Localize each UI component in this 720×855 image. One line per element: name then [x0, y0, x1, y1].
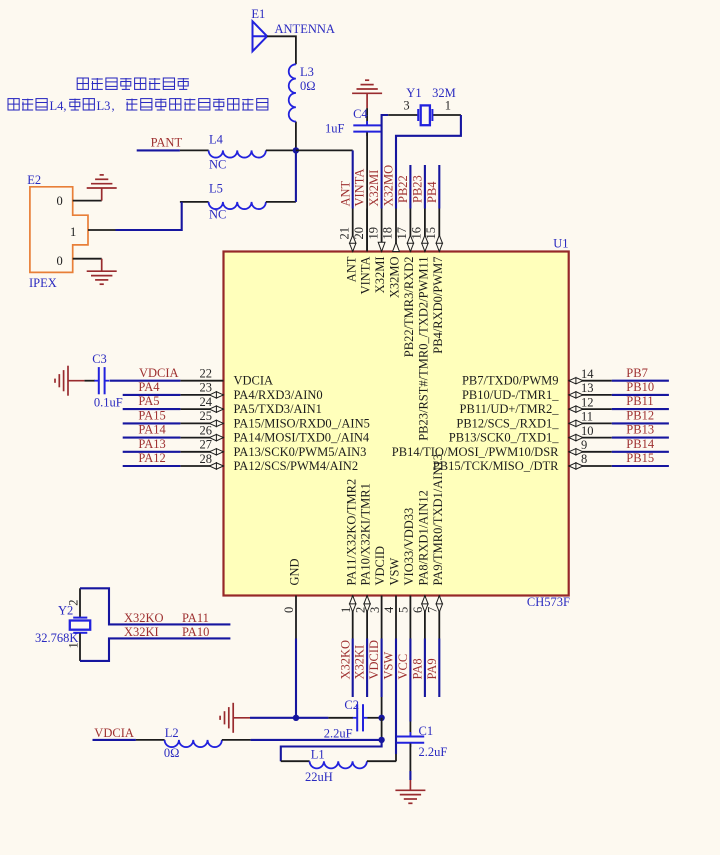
svg-text:PB12/SCS_/RXD1_: PB12/SCS_/RXD1_: [456, 416, 559, 430]
pin 22 (VDCIA) left: [180, 367, 273, 388]
pin 25 (PA15) left: [180, 409, 369, 430]
svg-text:VIO33/VDD33: VIO33/VDD33: [402, 508, 416, 586]
svg-text:PA12/SCS/PWM4/AIN2: PA12/SCS/PWM4/AIN2: [234, 459, 359, 473]
IC U1 CH573F body: [224, 237, 571, 609]
svg-text:PB22/TMR3/RXD2: PB22/TMR3/RXD2: [402, 257, 416, 358]
svg-text:E2: E2: [27, 173, 41, 187]
svg-text:L5: L5: [209, 182, 223, 196]
svg-text:PA9: PA9: [425, 658, 439, 679]
svg-text:24: 24: [200, 395, 213, 409]
wire ground to C2: [250, 717, 328, 719]
svg-text:L3: L3: [300, 65, 314, 79]
svg-text:C3: C3: [92, 352, 107, 366]
svg-text:5: 5: [397, 607, 411, 613]
wire C2 to VDCIA node: [381, 718, 383, 740]
inductor L1: [281, 747, 396, 784]
svg-text:NC: NC: [209, 208, 226, 222]
svg-text:PB4: PB4: [425, 181, 439, 203]
svg-text:21: 21: [337, 227, 351, 240]
svg-text:PB15: PB15: [626, 451, 654, 465]
svg-text:PB13: PB13: [626, 423, 654, 437]
svg-text:L4,: L4,: [50, 99, 67, 113]
wire E2 pin1 to L5: [116, 202, 182, 230]
capacitor C4: [325, 107, 381, 251]
pin 3 (VDCID) bottom: [368, 546, 387, 639]
capacitor C1: [397, 722, 448, 772]
pin 13 (PB10) right: [462, 381, 612, 402]
wire Y2 pin2 to X32KO: [80, 588, 230, 624]
svg-text:C2: C2: [344, 698, 359, 712]
svg-text:18: 18: [381, 227, 395, 240]
svg-text:6: 6: [411, 607, 425, 613]
svg-text:X32KI: X32KI: [124, 625, 159, 639]
svg-text:IPEX: IPEX: [29, 276, 57, 290]
svg-text:16: 16: [410, 227, 424, 240]
inductor L3: [289, 64, 316, 150]
svg-text:PB4/RXD0/PWM7: PB4/RXD0/PWM7: [431, 257, 445, 354]
node C2 junction: [378, 715, 384, 721]
svg-text:PA4/RXD3/AIN0: PA4/RXD3/AIN0: [234, 388, 323, 402]
svg-text:11: 11: [581, 410, 593, 424]
svg-text:PB14: PB14: [626, 437, 655, 451]
svg-text:9: 9: [581, 438, 587, 452]
svg-text:13: 13: [581, 381, 594, 395]
svg-text:PA11/X32KO/TMR2: PA11/X32KO/TMR2: [344, 479, 358, 586]
wire VDCID to C2: [381, 697, 383, 718]
capacitor C2: [324, 698, 382, 741]
svg-text:27: 27: [200, 438, 213, 452]
svg-text:PB10: PB10: [626, 380, 654, 394]
svg-text:X32KO: X32KO: [124, 611, 164, 625]
svg-text:12: 12: [581, 395, 594, 409]
pin 16 (PB23) top: [410, 209, 431, 441]
wire stub X32KO: [352, 639, 354, 698]
wire C1 to ground: [409, 771, 411, 780]
svg-text:PB15/TCK/MISO_/DTR: PB15/TCK/MISO_/DTR: [433, 459, 559, 473]
pin 14 (PB7) right: [462, 367, 612, 388]
annotation text line2 (可短接L4,断开L3，通过底板使用外接天线): [8, 99, 268, 113]
svg-text:10: 10: [581, 424, 594, 438]
svg-text:PB7/TXD0/PWM9: PB7/TXD0/PWM9: [462, 374, 559, 388]
pin 5 (VCC) bottom: [397, 508, 416, 639]
svg-text:PA9/TMR0/TXD1/AIN13: PA9/TMR0/TXD1/AIN13: [431, 454, 445, 586]
svg-text:L2: L2: [165, 726, 179, 740]
annotation text line1 (默认使用板载天线): [77, 78, 189, 89]
svg-text:PB11/UD+/TMR2_: PB11/UD+/TMR2_: [460, 402, 560, 416]
svg-text:PA4: PA4: [138, 380, 160, 394]
pin 10 (PB13) right: [449, 424, 612, 445]
wire PB7: [612, 380, 669, 382]
svg-text:22uH: 22uH: [305, 770, 333, 784]
svg-text:ANT: ANT: [338, 180, 352, 206]
ground at GND net: [220, 703, 250, 733]
svg-text:14: 14: [581, 367, 594, 381]
svg-text:PA15/MISO/RXD0_/AIN5: PA15/MISO/RXD0_/AIN5: [234, 416, 370, 430]
svg-text:0.1uF: 0.1uF: [94, 395, 123, 409]
wire VSW: [395, 639, 397, 755]
node antenna junction: [293, 147, 299, 153]
ground above C4: [352, 80, 382, 108]
node GND junction: [293, 715, 299, 721]
svg-text:X32MI: X32MI: [373, 257, 387, 294]
svg-text:PA8: PA8: [411, 658, 425, 679]
svg-text:1: 1: [339, 607, 353, 613]
svg-text:PB22: PB22: [396, 175, 410, 203]
svg-text:7: 7: [426, 607, 440, 613]
svg-text:PA8/RXD1/AIN12: PA8/RXD1/AIN12: [417, 490, 431, 585]
capacitor C3: [84, 352, 122, 410]
wire PA14: [123, 437, 181, 439]
svg-text:1uF: 1uF: [325, 122, 345, 136]
svg-text:VDCIA: VDCIA: [234, 374, 274, 388]
svg-text:PA5/TXD3/AIN1: PA5/TXD3/AIN1: [234, 402, 322, 416]
svg-text:1: 1: [70, 225, 76, 239]
pin 9 (PB14) right: [392, 438, 612, 459]
wire stub PB22: [409, 165, 411, 209]
pin 24 (PA5) left: [180, 395, 322, 416]
wire L2 to node: [251, 739, 382, 741]
svg-text:PA5: PA5: [138, 394, 159, 408]
svg-text:26: 26: [200, 423, 213, 437]
svg-text:X32MI: X32MI: [367, 170, 381, 207]
svg-text:PA14: PA14: [138, 423, 166, 437]
wire PB13: [612, 437, 669, 439]
wire VCC: [409, 639, 411, 722]
svg-text:L4: L4: [209, 132, 224, 146]
svg-text:PB23: PB23: [411, 175, 425, 203]
wire PA13: [123, 451, 181, 453]
wire stub PB23: [424, 165, 426, 209]
wire antenna node to ANT pin: [296, 149, 353, 151]
wire L5 to antenna node: [295, 150, 297, 202]
connector E2 (IPEX): [27, 173, 88, 290]
wire node to L1: [281, 740, 382, 761]
svg-text:VSW: VSW: [382, 652, 396, 680]
svg-text:PB11: PB11: [626, 394, 653, 408]
wire VDCIA L2: [93, 739, 136, 741]
svg-text:L1: L1: [311, 747, 325, 761]
pin 18 (X32MO) top: [381, 209, 402, 299]
wire E1 to L3: [267, 36, 296, 64]
svg-text:0: 0: [57, 254, 63, 268]
svg-text:25: 25: [200, 409, 213, 423]
pin E2.0 top: [73, 200, 102, 202]
svg-text:20: 20: [352, 227, 366, 240]
svg-text:VSW: VSW: [388, 558, 402, 586]
svg-text:0Ω: 0Ω: [164, 746, 180, 760]
svg-text:2.2uF: 2.2uF: [324, 726, 353, 740]
wire stub PB4: [438, 165, 440, 209]
inductor L4: [180, 132, 296, 171]
wire PB11: [612, 408, 669, 410]
wire VDCIA: [110, 380, 181, 382]
pin 7 (PA9) bottom: [426, 454, 445, 639]
svg-text:17: 17: [395, 227, 409, 240]
pin 2 (X32KI) bottom: [353, 483, 372, 638]
svg-text:NC: NC: [209, 158, 226, 172]
svg-text:3: 3: [403, 99, 409, 113]
crystal Y1 32M: [388, 86, 461, 125]
svg-text:PB10/UD-/TMR1_: PB10/UD-/TMR1_: [462, 388, 559, 402]
svg-text:15: 15: [424, 227, 438, 240]
svg-text:GND: GND: [288, 558, 302, 585]
pin 1 (X32KO) bottom: [339, 479, 358, 639]
wire VDCID: [381, 639, 383, 698]
svg-text:X32KI: X32KI: [353, 645, 367, 680]
svg-text:4: 4: [382, 606, 396, 613]
svg-text:PB12: PB12: [626, 409, 654, 423]
wire Y2 pin1 to X32KI: [80, 638, 230, 661]
node VDCIA junction: [378, 737, 384, 743]
svg-text:VDCID: VDCID: [373, 546, 387, 586]
svg-text:0: 0: [57, 194, 63, 208]
wire PB10: [612, 394, 669, 396]
inductor L5: [180, 182, 296, 222]
pin 20 (VINTA) top: [352, 209, 373, 295]
wire stub PA9: [438, 639, 440, 698]
svg-text:19: 19: [366, 227, 380, 240]
ground at E2 bottom: [87, 259, 117, 285]
ground at C1: [395, 780, 425, 803]
svg-text:PA14/MOSI/TXD0_/AIN4: PA14/MOSI/TXD0_/AIN4: [234, 431, 370, 445]
svg-text:C1: C1: [419, 724, 434, 738]
wire PA5: [123, 408, 181, 410]
svg-text:PA11: PA11: [182, 611, 209, 625]
pin 4 (VSW) bottom: [382, 558, 401, 639]
svg-text:VDCIA: VDCIA: [139, 366, 179, 380]
svg-text:L3: L3: [97, 99, 111, 113]
wire Y1 pin1 to X32MO: [396, 115, 461, 209]
antenna E1: [251, 7, 335, 51]
svg-text:PA10/X32KI/TMR1: PA10/X32KI/TMR1: [359, 483, 373, 585]
pin 21 (ANT) top: [337, 209, 358, 283]
wire PANT: [137, 149, 180, 151]
svg-text:U1: U1: [553, 237, 568, 251]
svg-text:X32MO: X32MO: [382, 165, 396, 207]
svg-text:VINTA: VINTA: [359, 257, 373, 295]
svg-text:ANTENNA: ANTENNA: [275, 22, 335, 36]
svg-text:PB23/RST#/TMR0_/TXD2/PWM11: PB23/RST#/TMR0_/TXD2/PWM11: [417, 257, 431, 441]
wire PB12: [612, 422, 669, 424]
svg-text:PB7: PB7: [626, 366, 648, 380]
wire GND net: [295, 639, 297, 718]
svg-text:PB14/TIO/MOSI_/PWM10/DSR: PB14/TIO/MOSI_/PWM10/DSR: [392, 445, 559, 459]
svg-text:PA13/SCK0/PWM5/AIN3: PA13/SCK0/PWM5/AIN3: [234, 445, 367, 459]
svg-text:,: ,: [112, 99, 115, 113]
wire Y1 pin3 to X32MI: [382, 115, 389, 209]
pin 28 (PA12) left: [180, 452, 358, 473]
svg-text:VCC: VCC: [396, 654, 410, 680]
svg-text:C4: C4: [353, 107, 368, 121]
pin 23 (PA4) left: [180, 381, 322, 402]
wire PB15: [612, 465, 669, 467]
svg-text:X32KO: X32KO: [338, 640, 352, 680]
crystal Y2 32.768K: [35, 588, 90, 661]
pin 6 (PA8) bottom: [411, 490, 430, 638]
wire VSW to L1: [395, 754, 397, 761]
pin 0 (GND) bottom: [282, 558, 301, 638]
svg-text:1: 1: [445, 99, 451, 113]
wire stub X32KI: [366, 639, 368, 698]
svg-text:23: 23: [200, 381, 213, 395]
svg-text:0Ω: 0Ω: [300, 79, 316, 93]
inductor L2: [136, 726, 251, 760]
svg-text:PA15: PA15: [138, 409, 165, 423]
pin E2.0 bottom: [73, 258, 102, 260]
svg-text:CH573F: CH573F: [527, 595, 570, 609]
wire PA12: [123, 465, 181, 467]
svg-text:22: 22: [200, 367, 213, 381]
svg-text:2: 2: [353, 607, 367, 613]
ground at C3: [55, 366, 84, 396]
wire PA4: [123, 394, 181, 396]
svg-text:VINTA: VINTA: [353, 169, 367, 207]
wire PB14: [612, 451, 669, 453]
svg-text:1: 1: [67, 642, 81, 648]
svg-text:28: 28: [200, 452, 213, 466]
pin E2.1: [88, 229, 116, 231]
wire PA15: [123, 422, 181, 424]
svg-text:VDCID: VDCID: [367, 640, 381, 680]
svg-text:0: 0: [282, 607, 296, 613]
svg-text:8: 8: [581, 452, 587, 466]
wire stub PA8: [424, 639, 426, 698]
pin 8 (PB15) right: [433, 452, 612, 473]
svg-text:PA12: PA12: [138, 451, 165, 465]
pin 27 (PA13) left: [180, 438, 366, 459]
pin 11 (PB12) right: [456, 410, 611, 431]
svg-text:PB13/SCK0_/TXD1_: PB13/SCK0_/TXD1_: [449, 431, 559, 445]
svg-text:3: 3: [368, 607, 382, 613]
svg-text:PANT: PANT: [151, 136, 183, 150]
wire ANT: [352, 150, 354, 208]
pin 19 (X32MI) top: [366, 209, 387, 294]
svg-text:2.2uF: 2.2uF: [419, 745, 448, 759]
svg-text:PA10: PA10: [182, 625, 209, 639]
svg-text:E1: E1: [251, 7, 265, 21]
pin 12 (PB11) right: [460, 395, 612, 416]
svg-text:2: 2: [67, 600, 81, 606]
svg-text:X32MO: X32MO: [388, 257, 402, 299]
pin 26 (PA14) left: [180, 423, 370, 444]
svg-text:VDCIA: VDCIA: [94, 726, 134, 740]
pin 15 (PB4) top: [424, 209, 445, 354]
svg-text:PA13: PA13: [138, 437, 165, 451]
svg-text:ANT: ANT: [344, 256, 358, 282]
ground at E2 top: [87, 175, 117, 201]
pin 17 (PB22) top: [395, 209, 416, 358]
